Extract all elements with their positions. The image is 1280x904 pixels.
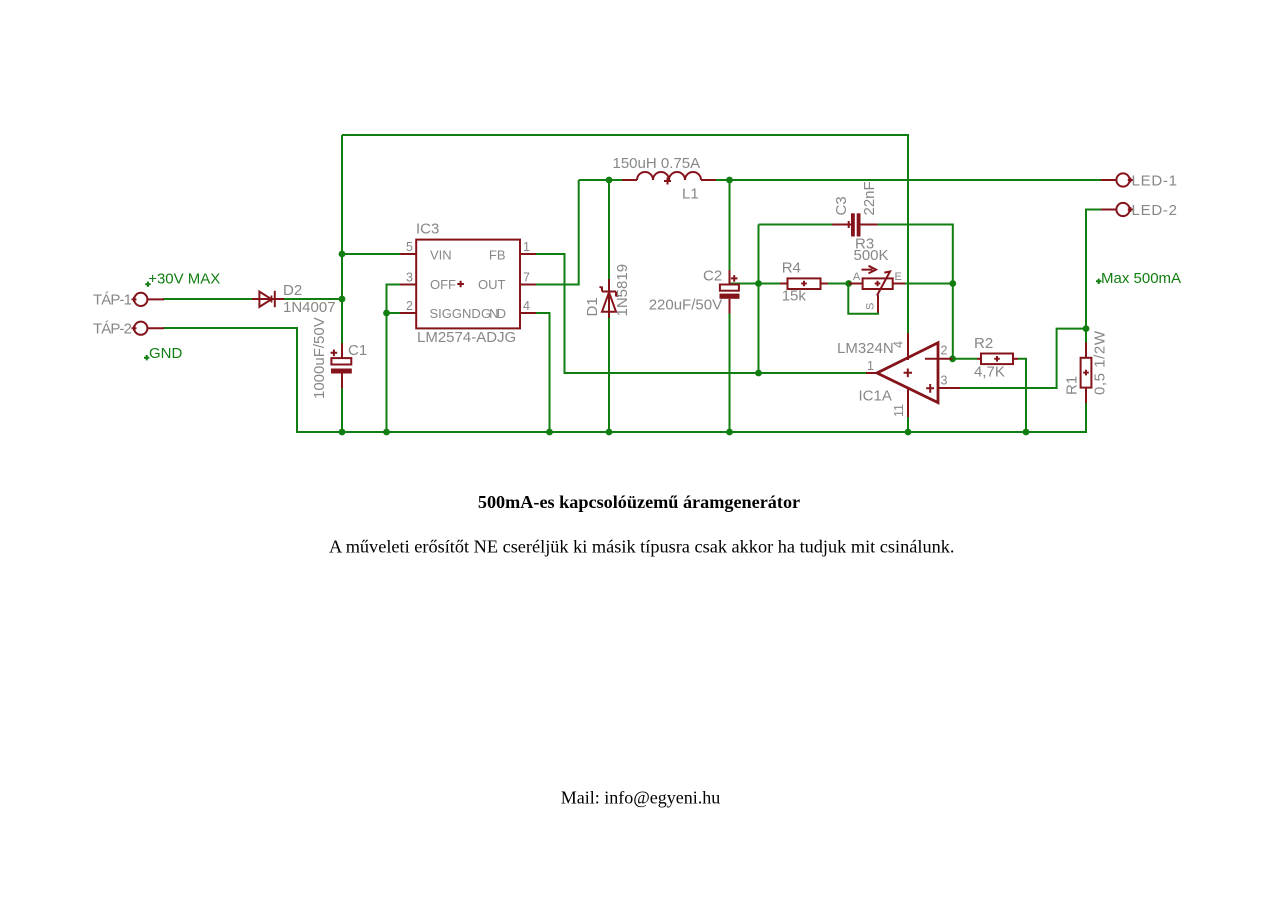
svg-text:VIN: VIN <box>430 248 452 263</box>
svg-text:1: 1 <box>523 240 530 254</box>
svg-text:22nF: 22nF <box>861 181 878 215</box>
svg-text:A: A <box>853 271 861 283</box>
svg-text:4: 4 <box>523 299 530 313</box>
svg-text:OFF: OFF <box>430 277 456 292</box>
svg-text:0,5 1/2W: 0,5 1/2W <box>1092 330 1109 395</box>
svg-text:LM324N: LM324N <box>837 340 894 357</box>
svg-text:TÁP-2: TÁP-2 <box>93 321 132 338</box>
svg-text:Mail: info@egyeni.hu: Mail: info@egyeni.hu <box>561 788 721 808</box>
svg-text:R1: R1 <box>1064 376 1081 395</box>
svg-text:LED-1: LED-1 <box>1132 173 1178 190</box>
svg-text:C2: C2 <box>703 268 722 285</box>
svg-text:1000uF/50V: 1000uF/50V <box>311 317 328 399</box>
svg-text:D2: D2 <box>283 282 302 299</box>
svg-text:C3: C3 <box>833 196 850 215</box>
svg-text:OUT: OUT <box>478 277 506 292</box>
svg-text:150uH 0.75A: 150uH 0.75A <box>613 155 701 172</box>
svg-text:R4: R4 <box>782 260 801 277</box>
svg-text:E: E <box>895 271 902 283</box>
svg-text:1N4007: 1N4007 <box>283 299 336 316</box>
svg-text:S: S <box>865 303 877 310</box>
svg-text:LM2574-ADJG: LM2574-ADJG <box>417 329 516 346</box>
svg-text:2: 2 <box>941 344 948 358</box>
svg-text:3: 3 <box>941 374 948 388</box>
svg-text:FB: FB <box>489 248 506 263</box>
svg-text:TÁP-1: TÁP-1 <box>93 292 132 309</box>
svg-text:220uF/50V: 220uF/50V <box>649 297 722 314</box>
svg-text:500mA-es kapcsolóüzemű áramgen: 500mA-es kapcsolóüzemű áramgenerátor <box>478 492 800 512</box>
svg-text:SIGGND: SIGGND <box>430 306 481 321</box>
svg-text:R2: R2 <box>974 335 993 352</box>
svg-text:7: 7 <box>523 271 530 285</box>
svg-text:4: 4 <box>892 341 906 348</box>
svg-text:IC3: IC3 <box>416 221 439 238</box>
svg-text:500K: 500K <box>854 247 889 264</box>
svg-text:2: 2 <box>406 299 413 313</box>
svg-text:1N5819: 1N5819 <box>614 264 631 317</box>
svg-text:IC1A: IC1A <box>859 388 892 405</box>
svg-text:15k: 15k <box>782 288 807 305</box>
svg-text:Max 500mA: Max 500mA <box>1101 270 1181 287</box>
svg-text:5: 5 <box>406 240 413 254</box>
svg-text:3: 3 <box>406 271 413 285</box>
svg-text:GND: GND <box>481 306 506 321</box>
svg-text:D1: D1 <box>584 297 601 316</box>
svg-text:LED-2: LED-2 <box>1132 202 1178 219</box>
svg-text:4,7K: 4,7K <box>974 364 1005 381</box>
svg-text:GND: GND <box>149 345 183 362</box>
svg-text:1: 1 <box>867 359 874 373</box>
svg-text:L1: L1 <box>682 186 699 203</box>
svg-text:A műveleti erősítőt NE cserélj: A műveleti erősítőt NE cseréljük ki mási… <box>329 537 955 557</box>
svg-text:+30V MAX: +30V MAX <box>148 270 220 287</box>
svg-text:C1: C1 <box>348 342 367 359</box>
svg-text:11: 11 <box>892 404 906 417</box>
